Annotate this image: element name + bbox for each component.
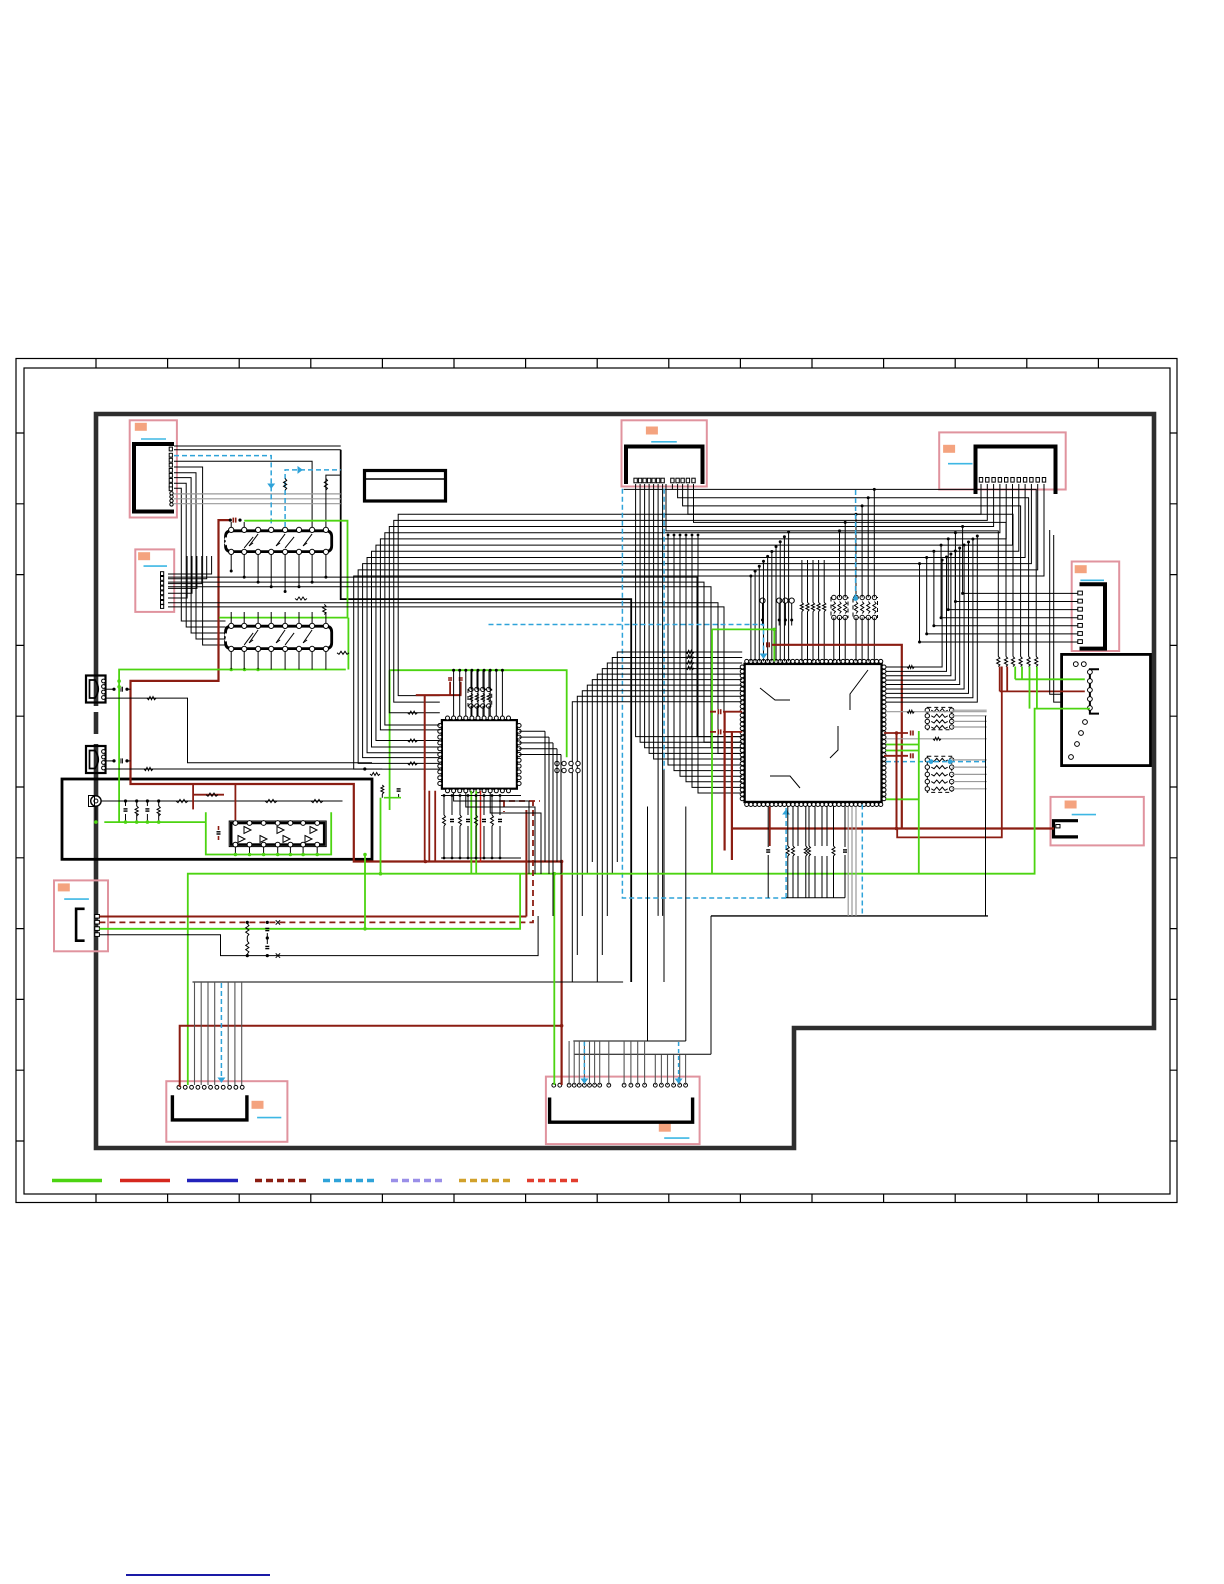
component cluster below IC5 <box>441 795 521 797</box>
connector CN4 pins <box>979 478 982 483</box>
encoder feed wires <box>1050 530 1062 694</box>
IC4 pins right column <box>882 665 886 669</box>
green IC5 risers <box>471 791 476 874</box>
IC5 corner components <box>370 773 380 776</box>
connector CN5 outline box (right-middle) <box>1072 562 1120 652</box>
audio box main rail <box>101 800 343 802</box>
resistor network RN1 above IC4 <box>831 598 848 618</box>
wire CN1 pin3 to IC1 <box>174 461 312 527</box>
op-amp IC3 body <box>231 823 324 845</box>
analog switch IC2 body+pins <box>226 626 332 648</box>
IC5 top feeds <box>453 670 455 716</box>
motor M1 symbol <box>91 796 101 806</box>
IC5 pins bottom row <box>446 789 450 793</box>
IC4 pins left column <box>740 665 744 669</box>
drawing sheet inner border <box>24 368 1170 1194</box>
wire IC1 pins1-2 stubs <box>230 522 232 527</box>
legend blue solid line <box>187 1179 238 1183</box>
resistor network RN3 right of IC4 <box>927 707 951 729</box>
green wire at IC4 top <box>712 629 774 873</box>
motor stub <box>95 806 97 822</box>
IC4 pins top row <box>745 659 749 663</box>
connector CN8 pins <box>552 1083 556 1087</box>
legend dark-red dashed line <box>255 1179 306 1183</box>
blue dashed right of IC4 <box>886 761 986 763</box>
legend green solid line <box>52 1179 102 1183</box>
drawing sheet outer border <box>16 359 1177 1203</box>
mid vertical to bottom rail <box>663 770 665 982</box>
resistor row above IC4 (vertical resistors) <box>800 603 803 612</box>
step wires IC5 bottom to rails <box>454 793 529 874</box>
legend purple dashed line <box>391 1179 442 1183</box>
blue dashed RN2 feed <box>855 490 857 598</box>
circle chain parts between ICs <box>555 761 559 765</box>
analog switch IC1 body+pins <box>226 531 332 552</box>
blue dashed mid horizontal to IC4 <box>489 625 764 659</box>
jack J1 (line out L) <box>86 676 106 703</box>
IC4 left pin fan down (nested) <box>617 652 742 862</box>
wires mid verticals to IC4 lower-left pins <box>668 535 742 765</box>
test point circles above IC4 <box>760 598 765 603</box>
resistor network RN5 above IC5 <box>468 689 492 706</box>
gray wire with resistor below RN3 <box>886 738 987 740</box>
connector CN3 pins <box>634 478 637 483</box>
legend cyan dashed line <box>323 1179 374 1183</box>
RN5 stubs <box>470 706 472 716</box>
maroon jack capacitors <box>119 687 121 692</box>
connector CN6 bracket <box>76 909 85 941</box>
blue dashed pair CN3 <box>622 489 786 898</box>
maroon long 862 junction dots <box>424 860 428 864</box>
CN7 riser wires <box>194 982 196 1085</box>
connector CN5 pins <box>1078 591 1083 595</box>
maroon IC4 left caps <box>717 709 719 714</box>
wires resistor row to IC4 top pins <box>801 612 803 662</box>
red IC5 riser <box>480 791 482 862</box>
connector CN4 outline box (top-right) <box>939 432 1065 489</box>
connector CN8 outline box (bottom-middle) <box>546 1077 700 1145</box>
green audio verticals down <box>364 855 366 929</box>
shield box (double-line) <box>365 471 446 502</box>
blue dashed IC4 bottom to bus <box>861 805 863 916</box>
audio section thick box <box>62 779 372 859</box>
IC4 left horizontals with resistors <box>686 651 694 654</box>
maroon S1 feed <box>732 827 1054 829</box>
microcontroller IC4 body <box>745 664 882 802</box>
CN6 RC components <box>246 924 249 937</box>
maroon IC5 bottom risers <box>425 790 436 862</box>
border tick marks left/right <box>16 433 1177 1141</box>
connector CN1 body <box>134 444 174 512</box>
switch S1 outline box (right-lower) <box>1051 797 1144 846</box>
green guard net around IC1/IC2 <box>119 521 348 822</box>
connector CN1 outline box (top-left) <box>130 420 177 517</box>
audio RC ladder <box>125 801 127 806</box>
IC3 bottom stubs to green <box>234 847 236 855</box>
green audio ground rail <box>104 821 206 823</box>
blue dashed wire CN1 pin2 <box>174 456 271 526</box>
connector CN6 outline box (left-middle) <box>54 880 108 951</box>
CN8 riser wires <box>568 1041 570 1085</box>
switch S1 pin <box>1056 825 1060 828</box>
connector CN3 body <box>626 447 703 485</box>
CN7 blue dashed riser <box>220 983 222 1080</box>
wire spine to IC1 pin8 with resistor <box>326 475 341 527</box>
RN3 outputs gray <box>952 709 987 711</box>
connector CN7 pins <box>177 1085 181 1089</box>
maroon right risers <box>897 667 1002 838</box>
drops from bundle to CN5 pins <box>963 527 1078 594</box>
maroon audio details <box>192 784 194 809</box>
rail extension left of CN3 right rails <box>624 488 673 490</box>
connector CN3 outline box (top-middle) <box>622 420 707 486</box>
wires CN3-left pins 6-7 down long <box>657 484 659 916</box>
connector CN7 body <box>172 1095 247 1120</box>
maroon IC5 feed upper <box>416 694 462 696</box>
IC4 bottom pin drops with resistors <box>786 897 845 899</box>
connector CN2 pins <box>161 572 164 576</box>
drops from bundle to IC4 top pins <box>750 576 752 661</box>
long black wire to CN7 risers <box>193 981 624 983</box>
resistor network RN4 right of IC4 <box>927 756 951 792</box>
resistor above IC2 <box>295 597 307 600</box>
thick border gap with dash (at jacks) <box>93 706 100 744</box>
CN6 green wire <box>99 874 520 929</box>
maroon CN7 feed <box>180 1026 562 1087</box>
wires CN2 to risers (fan up) <box>168 556 212 574</box>
wires CN1 pins to IC2 area (nested fan) <box>174 467 226 645</box>
resistor network RN2 above IC4 <box>853 598 878 618</box>
legend red dashed line <box>527 1179 578 1183</box>
gray IC4 bottom risers <box>847 807 849 916</box>
test point drops above IC4 <box>762 603 764 625</box>
IC5 pins right column <box>517 724 521 728</box>
IC4 inner notch lines <box>760 688 790 700</box>
switch S1 body <box>1054 821 1079 837</box>
wires RN1/RN2 bottoms to IC4 top pins <box>833 618 835 662</box>
CN6 maroon wire <box>99 916 526 918</box>
bus spine wire from CN1 <box>341 450 632 982</box>
wires CN2 long rows to IC4 left fan <box>168 603 742 754</box>
jack1 wire with resistor <box>106 698 372 763</box>
CN8 green riser <box>553 874 555 1085</box>
RN4 outputs gray <box>952 759 987 761</box>
resistor right of IC2 <box>337 651 349 654</box>
maroon audio feed riser (left) <box>131 520 562 1085</box>
green guard outline around IC5 <box>390 670 567 810</box>
wires IC1 bottom to bus rows <box>230 555 232 572</box>
wires CN3-left pins down <box>636 484 743 737</box>
IC5 pins left column <box>438 724 442 728</box>
DSP IC5 body <box>442 720 517 789</box>
IC4 right wire with resistor to RN column <box>886 711 987 713</box>
gray wires CN1 lower pins <box>174 493 341 495</box>
CN6 black wire <box>99 916 538 956</box>
connector CN5 body <box>1080 584 1106 648</box>
encoder SW2 contacts <box>1073 662 1078 667</box>
resistor on IC1 pin5 riser <box>284 479 287 491</box>
IC4 right pin wires to bus (nested up) <box>886 560 942 667</box>
IC5 pins top row <box>446 716 450 720</box>
IC5 right wires <box>519 730 545 732</box>
connector CN1 pins <box>169 447 172 451</box>
connector CN4 body <box>976 447 1056 495</box>
footer link underline <box>126 1574 270 1576</box>
green right of IC4 <box>918 731 920 874</box>
CN8 blue dashed risers <box>583 1042 585 1082</box>
op-amp IC3 triangles <box>244 827 251 834</box>
connector CN2 outline box (left) <box>135 549 174 612</box>
CN4 bundle rows (to left risers and IC5) <box>398 484 981 696</box>
vertical resistor right of IC1 <box>323 604 326 614</box>
resistors near IC4 left (horizontal) <box>686 651 694 654</box>
IC4 pins bottom row <box>745 803 749 807</box>
IC5 left row resistors <box>408 711 418 714</box>
connector CN7 outline box (bottom-left) <box>166 1081 287 1142</box>
IC4 bottom caps <box>766 849 770 851</box>
wire CN1 pin1 to spine <box>174 445 341 447</box>
green IC3 surround <box>206 812 331 854</box>
resistor row right of CN3 bus (vertical) <box>997 657 1000 667</box>
connector CN8 body <box>550 1098 693 1123</box>
jack J2 (line out R) <box>86 746 106 773</box>
encoder SW2 box <box>1062 654 1151 765</box>
wires IC2 bottom stubs to green <box>230 652 232 670</box>
CN6 maroon dashed wire <box>99 801 533 922</box>
wires IC2 top stubs <box>230 612 232 623</box>
legend yellow dashed line <box>459 1179 511 1183</box>
op-amp IC3 pins <box>233 821 238 826</box>
green net junction dots <box>243 668 247 672</box>
maroon IC4 bottom cap riser <box>769 807 771 847</box>
jack2 wire with resistor <box>106 768 382 770</box>
connector CN6 pins <box>95 915 100 919</box>
long rows mid (x174-760) <box>168 577 742 737</box>
main board thick outline with notch <box>96 414 1154 1148</box>
bus rows upper (CN3-right to resistor row) <box>672 484 1036 657</box>
maroon IC4 right caps <box>884 732 908 734</box>
CN8 feed rails <box>573 807 686 1042</box>
maroon capacitor at IC1 top <box>232 518 234 523</box>
taps from bus rows to RN1/RN2 <box>873 489 875 597</box>
blue dashed wire IC1 pin5 riser <box>285 470 341 527</box>
maroon wire at IC4 top <box>772 645 902 829</box>
legend red solid line <box>120 1179 170 1183</box>
border tick marks top/bottom <box>96 359 1098 1203</box>
